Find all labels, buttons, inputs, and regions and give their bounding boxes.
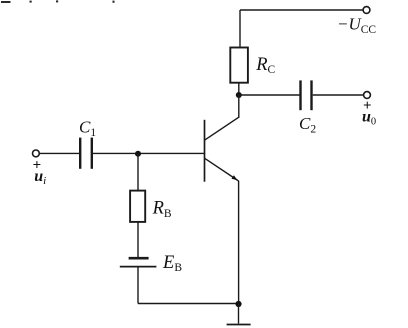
terminal: -Ucc open circle: [363, 7, 370, 14]
cropped text remnant marks (top edge): [1, 0, 115, 3]
wire: collector node to C2: [239, 94, 300, 96]
wire: node down to ground symbol: [238, 304, 240, 324]
wire: vertical from rail down to Rc: [239, 10, 241, 48]
svg-text:EB: EB: [162, 253, 182, 274]
svg-text:−UCC: −UCC: [337, 15, 376, 36]
ground: [227, 324, 251, 326]
svg-text:C1: C1: [79, 118, 96, 139]
resistor RC (box): [230, 48, 248, 83]
wire: C1 to base bar: [93, 152, 205, 154]
wire: emitter vertical down: [238, 181, 240, 304]
wire: C2 to output terminal: [313, 94, 364, 96]
wire: battery bottom down: [137, 267, 139, 304]
battery EB: [120, 258, 157, 266]
terminal: input open circle: [33, 150, 40, 157]
node: ground junction dot: [235, 301, 241, 307]
svg-text:u0: u0: [362, 109, 376, 128]
wire: Rc bottom to collector node: [238, 83, 240, 95]
resistor RB (box): [130, 191, 145, 222]
wire: bottom horizontal to ground node: [138, 303, 239, 305]
svg-text:RB: RB: [152, 199, 172, 220]
svg-text:ui: ui: [34, 168, 46, 187]
node: base junction dot: [135, 151, 141, 157]
svg-text:RC: RC: [255, 55, 275, 76]
wire: collector vertical (node to transistor): [238, 95, 240, 118]
capacitor C1: [80, 138, 92, 169]
terminal: output open circle: [364, 92, 371, 99]
wire: top supply rail horizontal: [240, 9, 364, 11]
wire: base node down to RB: [137, 154, 139, 191]
wire: RB bottom to battery: [137, 222, 139, 257]
node: collector junction dot: [236, 92, 242, 98]
svg-text:C2: C2: [299, 114, 316, 135]
wire: input terminal to C1: [39, 152, 79, 154]
capacitor C2: [301, 80, 312, 110]
transistor Q (BJT): [205, 117, 239, 182]
